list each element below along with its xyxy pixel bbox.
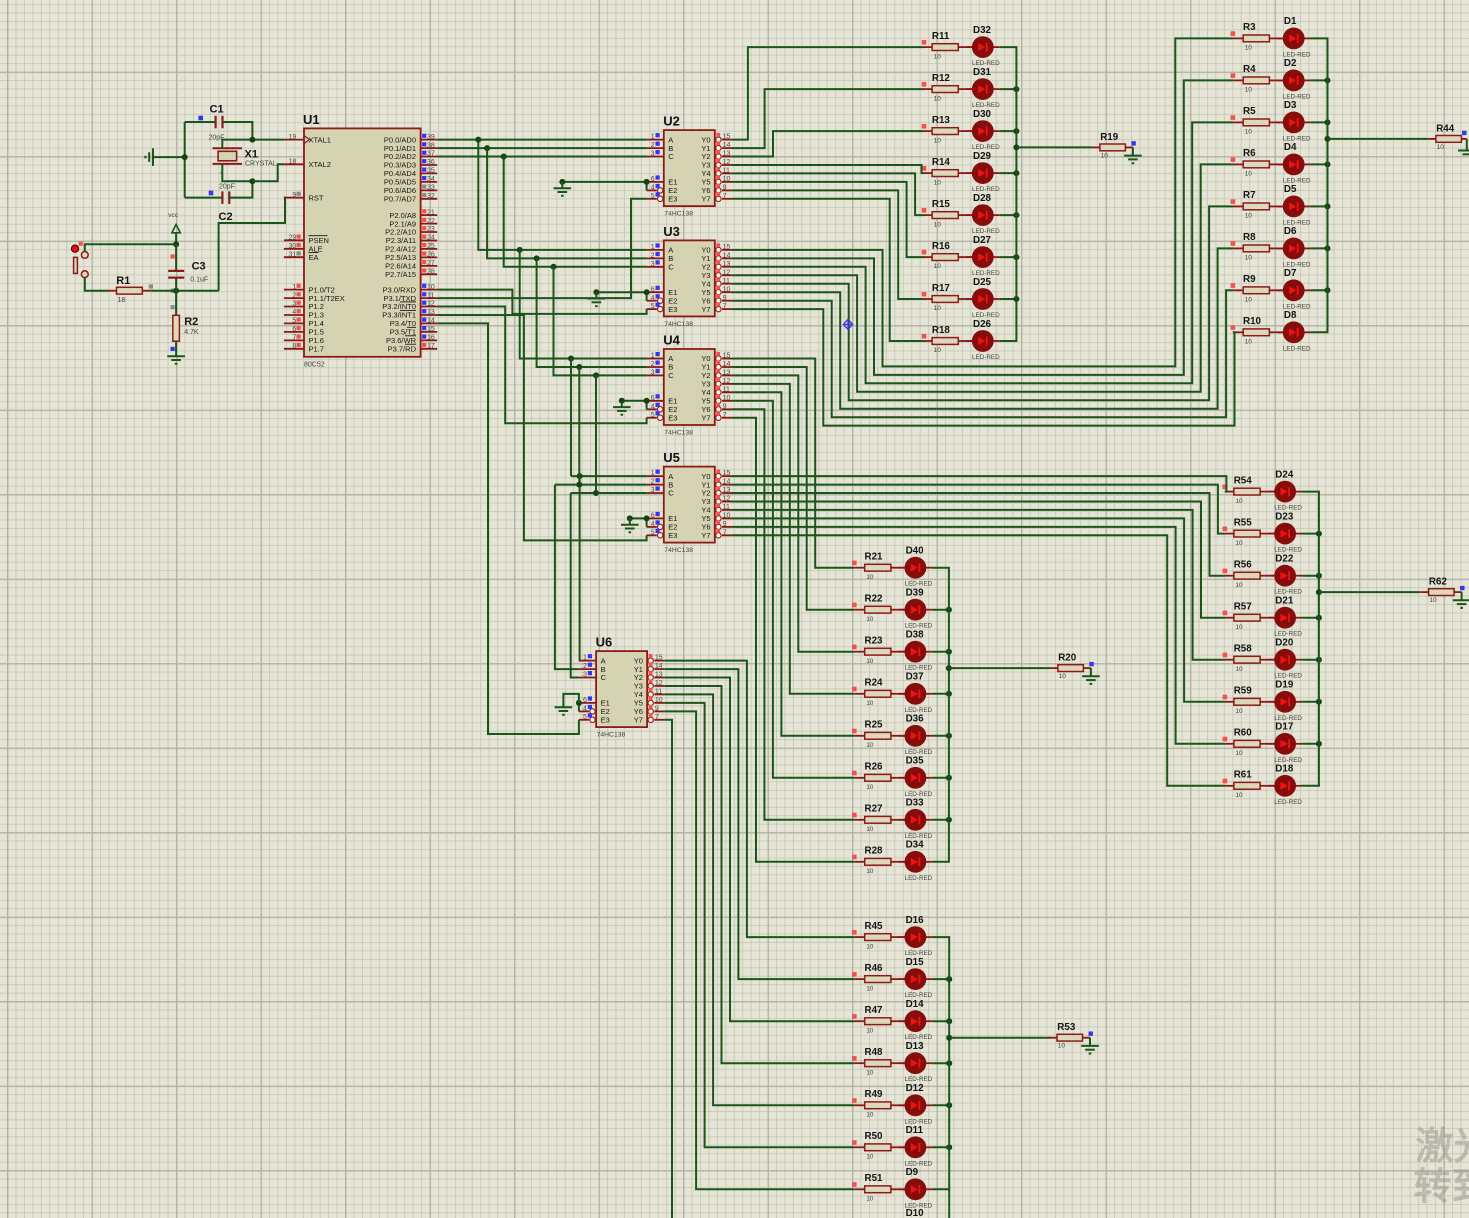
svg-text:10: 10 (866, 1027, 874, 1034)
LED D29 (966, 151, 1000, 193)
svg-text:14: 14 (427, 318, 435, 325)
junction bus D25 (1013, 296, 1019, 302)
LED D39 (899, 588, 933, 630)
resistor R56 to LED lead (1260, 575, 1275, 577)
resistor R51 10 (852, 1173, 891, 1202)
U1 pin P2.7/A15 28 (385, 268, 437, 279)
svg-text:10: 10 (934, 137, 942, 144)
wire P3.0 to U3.E3 (437, 290, 646, 314)
decoder U4 74HC138 (663, 333, 715, 437)
svg-text:R6: R6 (1243, 148, 1256, 159)
svg-text:4: 4 (651, 185, 655, 192)
LED D22 (1269, 554, 1303, 596)
svg-text:4: 4 (292, 309, 296, 316)
resistor R21 10 (852, 552, 891, 581)
svg-text:32: 32 (427, 193, 435, 200)
svg-text:D26: D26 (973, 319, 992, 330)
svg-text:15: 15 (723, 470, 731, 477)
svg-text:XTAL1: XTAL1 (309, 135, 331, 144)
U5 pin Y7 7 (701, 529, 732, 540)
U1 pin P3.6/WR 16 (386, 335, 437, 346)
ground (R44) (1466, 139, 1468, 151)
junction bus D13 (946, 1060, 952, 1066)
svg-text:D39: D39 (906, 588, 925, 599)
svg-text:14: 14 (723, 479, 731, 486)
svg-text:11: 11 (723, 168, 730, 175)
resistor R55 10 (1223, 517, 1261, 546)
svg-text:31: 31 (289, 251, 297, 258)
junction bus D35 (946, 775, 952, 781)
svg-text:3: 3 (292, 301, 296, 308)
resistor R22 10 (852, 594, 891, 623)
junction bus D28 (1013, 212, 1019, 218)
svg-text:D15: D15 (906, 957, 925, 968)
svg-text:10: 10 (1437, 144, 1445, 151)
wire button top to vcc node (85, 244, 176, 251)
svg-text:Y7: Y7 (701, 413, 710, 422)
wire U2.Y1 to R12 (732, 89, 924, 148)
wire U6.Y1 to R46 (664, 669, 854, 979)
svg-text:10: 10 (1245, 255, 1253, 262)
wire U4.Y2 to R23 (732, 375, 854, 651)
svg-text:X1: X1 (245, 149, 258, 161)
svg-text:13: 13 (723, 151, 731, 158)
wire U5.Y1 to R55 (732, 485, 1225, 534)
junction osc-gnd (182, 154, 188, 160)
wire U3.Y6 to R9 (732, 290, 1233, 417)
junction U3.B tap (534, 255, 540, 261)
wire D15 to bus (932, 978, 949, 980)
watermark text (1414, 1126, 1469, 1209)
svg-text:D34: D34 (906, 840, 925, 851)
ground (U4 enable) (621, 401, 623, 407)
wire D23 to bus (1302, 533, 1319, 535)
resistor R11 10 (922, 31, 959, 60)
U1 pin ALE 30 (284, 243, 323, 254)
U1 pin P2.5/A13 26 (385, 252, 437, 263)
resistor R10 to LED lead (1269, 331, 1283, 333)
junction bus D38 (946, 649, 952, 655)
wire U6.Y5 to R50 (664, 703, 854, 1147)
svg-text:R59: R59 (1234, 686, 1253, 697)
resistor R48 10 (852, 1047, 891, 1076)
U4 pin Y7 7 (701, 411, 732, 422)
U3 pin C 3 (647, 260, 675, 271)
svg-text:C: C (668, 152, 674, 161)
U6 pin Y5 10 (634, 696, 665, 707)
junction reset node (173, 288, 179, 294)
wire D38 to bus (932, 651, 949, 653)
resistor R50 to LED lead (891, 1146, 905, 1148)
junction U4 gnd stem (619, 398, 625, 404)
LED D19 (1269, 680, 1303, 722)
svg-text:D3: D3 (1284, 100, 1297, 111)
svg-text:24: 24 (427, 235, 435, 242)
svg-text:D10: D10 (906, 1208, 925, 1218)
junction bus tap (1316, 589, 1322, 595)
capacitor C2 20pF (209, 184, 235, 224)
svg-text:6: 6 (292, 326, 296, 333)
U3 pin Y6 9 (701, 294, 732, 305)
junction U5.A tap (577, 473, 583, 479)
wire D28 to bus (1000, 214, 1017, 216)
wire B bus U4-U5 (578, 367, 580, 485)
resistor R25 10 (852, 720, 891, 749)
svg-text:C2: C2 (219, 211, 233, 223)
LED D25 (966, 277, 1000, 319)
svg-text:26: 26 (427, 252, 435, 259)
U2 pin Y2 13 (701, 150, 732, 161)
wire U5.B input (555, 484, 647, 486)
svg-text:7: 7 (723, 193, 727, 200)
svg-text:R62: R62 (1429, 577, 1448, 588)
svg-text:10: 10 (1245, 129, 1253, 136)
U4 pin E1 6 (647, 394, 678, 405)
svg-text:29: 29 (289, 235, 297, 242)
svg-text:10: 10 (866, 1069, 874, 1076)
wire X1 top to XTAL1 (222, 140, 284, 149)
U3 pin Y5 10 (701, 286, 732, 297)
wire cathode bus (1302, 492, 1319, 786)
U2 pin Y7 7 (701, 192, 732, 203)
wire U3.Y3 to R6 (732, 164, 1233, 391)
LED D9 (899, 1167, 933, 1209)
svg-text:D28: D28 (973, 193, 992, 204)
svg-text:9: 9 (723, 185, 727, 192)
resistor R12 to LED lead (958, 88, 972, 90)
wire to XTAL2 (252, 164, 284, 181)
resistor R23 to LED lead (891, 651, 905, 653)
svg-text:2: 2 (651, 142, 655, 149)
svg-text:D40: D40 (906, 546, 925, 557)
wire U5.C input (571, 492, 647, 494)
junction U3.E1 (644, 289, 650, 295)
resistor R44 10 (terminator) (1428, 123, 1467, 151)
svg-text:11: 11 (723, 504, 730, 511)
U2 pin E2 4 (647, 184, 678, 195)
svg-text:D31: D31 (973, 67, 992, 78)
wire U5.Y4 to R58 (732, 510, 1225, 660)
svg-text:5: 5 (583, 714, 587, 721)
svg-text:10: 10 (723, 513, 731, 520)
svg-text:D37: D37 (906, 672, 925, 683)
wire P0.1 to U2.B (437, 147, 646, 149)
U5 pin Y3 12 (701, 495, 732, 506)
resistor R60 to LED lead (1260, 743, 1275, 745)
junction bus R53 tap (946, 1035, 952, 1041)
LED D33 (899, 798, 933, 840)
svg-text:6: 6 (651, 176, 655, 183)
U6 pin E3 5 (579, 713, 610, 724)
svg-text:U4: U4 (663, 333, 680, 348)
junction U2 gnd stem (559, 179, 565, 185)
svg-text:10: 10 (866, 700, 874, 707)
svg-text:D38: D38 (906, 630, 925, 641)
svg-text:R1: R1 (116, 275, 130, 287)
svg-text:10: 10 (934, 95, 942, 102)
resistor R4 10 (1231, 64, 1270, 93)
svg-text:R48: R48 (865, 1047, 884, 1058)
LED D31 (966, 67, 1000, 109)
wire cathode bus bottom extension (948, 1189, 950, 1218)
wire U2.Y2 to R13 (732, 131, 924, 156)
svg-text:D6: D6 (1284, 226, 1297, 237)
svg-text:3: 3 (651, 261, 655, 268)
resistor R51 to LED lead (891, 1188, 905, 1190)
wire U3.Y1 to R4 (732, 80, 1233, 375)
wire D35 to bus (932, 777, 949, 779)
svg-text:1: 1 (651, 134, 655, 141)
svg-text:36: 36 (427, 159, 435, 166)
svg-text:U3: U3 (663, 224, 680, 239)
resistor R15 to LED lead (958, 214, 972, 216)
U4 pin Y1 14 (701, 360, 732, 371)
svg-text:10: 10 (1245, 297, 1253, 304)
wire U5.A input (571, 475, 647, 477)
svg-text:LED-RED: LED-RED (905, 875, 933, 882)
junction bus D22 (1316, 573, 1322, 579)
LED D16 (899, 915, 933, 957)
svg-text:R8: R8 (1243, 232, 1256, 243)
U5 pin E2 4 (647, 520, 678, 531)
svg-text:2: 2 (651, 361, 655, 368)
svg-text:10: 10 (934, 347, 942, 354)
U1 pin P0.1/AD1 38 (384, 142, 437, 153)
U4 pin Y6 9 (701, 403, 732, 414)
resistor R26 to LED lead (891, 777, 905, 779)
resistor R54 10 (1223, 475, 1261, 504)
U3 pin E1 6 (647, 286, 678, 297)
svg-text:R46: R46 (865, 963, 884, 974)
resistor R14 to LED lead (958, 172, 972, 174)
wire U4.Y1 to R22 (732, 367, 854, 610)
junction bus D17 (1316, 741, 1322, 747)
decoder U2 74HC138 (663, 114, 715, 218)
U4 pin Y2 13 (701, 369, 732, 380)
svg-text:7: 7 (655, 714, 659, 721)
wire D30 to bus (1000, 130, 1017, 132)
junction bus D31 (1013, 86, 1019, 92)
U2 pin Y5 10 (701, 175, 732, 186)
svg-text:1: 1 (651, 353, 655, 360)
LED D17 (1269, 722, 1303, 764)
svg-text:10: 10 (1235, 582, 1243, 589)
svg-text:9: 9 (292, 192, 296, 199)
svg-text:R13: R13 (932, 115, 951, 126)
LED D37 (899, 672, 933, 714)
wire D39 to bus (932, 609, 949, 611)
svg-text:D19: D19 (1275, 680, 1294, 691)
svg-text:D32: D32 (973, 25, 992, 36)
svg-text:38: 38 (427, 142, 435, 149)
resistor R61 10 (1223, 770, 1261, 799)
svg-text:CRYSTAL: CRYSTAL (245, 161, 277, 168)
svg-text:10: 10 (1429, 597, 1437, 604)
resistor R47 to LED lead (891, 1020, 905, 1022)
U1 pin P0.4/AD4 35 (384, 168, 437, 179)
svg-text:10: 10 (1235, 666, 1243, 673)
svg-text:R16: R16 (932, 241, 951, 252)
microcontroller U1 80C52 (303, 112, 421, 369)
U2 pin E1 6 (647, 175, 678, 186)
wire U5.Y3 to R57 (732, 502, 1225, 618)
resistor R1 18 (108, 275, 153, 304)
junction U4.B tap (576, 364, 582, 370)
U1 pin P3.7/RD 17 (388, 343, 438, 354)
U1 pin RST 9 (284, 192, 324, 203)
wire U4.Y6 to R27 (732, 409, 854, 820)
resistor R27 10 (852, 804, 891, 833)
svg-text:10: 10 (1101, 152, 1109, 159)
wire D14 to bus (932, 1020, 949, 1022)
U6 pin A 1 (579, 654, 606, 665)
svg-text:D17: D17 (1275, 722, 1294, 733)
U5 pin E3 5 (647, 529, 678, 540)
svg-text:R28: R28 (865, 846, 884, 857)
svg-text:vcc: vcc (168, 212, 179, 219)
U2 pin B 2 (647, 142, 674, 153)
junction bus D33 (946, 817, 952, 823)
svg-text:22: 22 (427, 218, 435, 225)
svg-text:37: 37 (427, 151, 435, 158)
svg-text:D21: D21 (1275, 596, 1294, 607)
wire U4.Y7 to R28 (732, 418, 854, 862)
svg-text:10: 10 (934, 263, 942, 270)
svg-text:E3: E3 (668, 195, 677, 204)
U1 pin P3.5/T1 15 (390, 326, 437, 337)
svg-text:R54: R54 (1234, 475, 1253, 486)
resistor R53 10 (terminator) (1049, 1022, 1093, 1050)
svg-text:10: 10 (866, 943, 874, 950)
U1 pin P0.6/AD6 33 (384, 185, 437, 196)
svg-text:10: 10 (866, 742, 874, 749)
U2 pin A 1 (647, 133, 674, 144)
svg-text:R57: R57 (1234, 602, 1253, 613)
U1 pin P2.6/A14 27 (385, 260, 437, 271)
capacitor C1 20pF (198, 104, 224, 142)
wire U5.Y6 to R60 (732, 527, 1225, 744)
resistor R3 10 (1231, 22, 1270, 51)
svg-text:10: 10 (866, 1154, 874, 1161)
resistor R20 10 (terminator) (1050, 653, 1094, 681)
svg-text:D14: D14 (906, 999, 925, 1010)
U1 pin EA 31 (284, 251, 319, 262)
resistor R16 to LED lead (958, 256, 972, 258)
wire D4 to bus (1311, 163, 1328, 165)
svg-text:10: 10 (866, 1196, 874, 1203)
junction bus tap (1325, 136, 1331, 142)
svg-text:80C52: 80C52 (304, 362, 325, 369)
svg-text:R14: R14 (932, 157, 951, 168)
svg-text:D33: D33 (906, 798, 925, 809)
ground (oscillator) (145, 148, 153, 166)
wire A bus U5-U6 (578, 476, 581, 660)
svg-text:R11: R11 (932, 31, 950, 42)
svg-text:R21: R21 (865, 552, 884, 563)
junction U3.A tap (517, 247, 523, 253)
svg-text:11: 11 (723, 278, 730, 285)
svg-text:10: 10 (1235, 750, 1243, 757)
U2 pin Y6 9 (701, 184, 732, 195)
svg-text:9: 9 (655, 706, 659, 713)
svg-text:30: 30 (289, 243, 297, 250)
wire D6 to bus (1311, 247, 1328, 249)
LED D3 (1277, 100, 1311, 142)
U6 pin Y1 14 (634, 663, 665, 674)
svg-text:3: 3 (651, 370, 655, 377)
resistor R59 to LED lead (1260, 701, 1275, 703)
svg-text:R19: R19 (1100, 132, 1119, 143)
svg-text:D5: D5 (1284, 184, 1297, 195)
svg-text:D30: D30 (973, 109, 992, 120)
svg-text:D18: D18 (1275, 764, 1294, 775)
resistor R6 to LED lead (1269, 163, 1283, 165)
svg-text:Y7: Y7 (634, 716, 643, 725)
LED D28 (966, 193, 1000, 235)
wire U5.E1-E2 tie (630, 517, 647, 519)
svg-text:0.1uF: 0.1uF (190, 277, 208, 284)
svg-text:转到: 转到 (1414, 1167, 1469, 1209)
wire osc left vertical (184, 122, 186, 198)
svg-text:R2: R2 (184, 316, 198, 328)
wire U4.E1-E2 tie (622, 400, 647, 402)
svg-text:C: C (601, 673, 607, 682)
svg-text:D16: D16 (906, 915, 925, 926)
LED D18 (1269, 764, 1303, 806)
svg-text:9: 9 (723, 295, 727, 302)
svg-text:74HC138: 74HC138 (664, 430, 693, 437)
junction U2.E1 (644, 179, 650, 185)
svg-text:10: 10 (723, 176, 731, 183)
svg-text:15: 15 (723, 134, 731, 141)
svg-text:10: 10 (934, 305, 942, 312)
svg-text:R25: R25 (865, 720, 884, 731)
U4 pin Y4 11 (701, 386, 732, 397)
resistor R2 4.7K (171, 305, 199, 351)
resistor R11 to LED lead (958, 46, 972, 48)
resistor R22 to LED lead (891, 609, 905, 611)
wire B bus U3-U4 (537, 258, 647, 367)
svg-text:10: 10 (1058, 1043, 1066, 1050)
svg-text:E3: E3 (668, 413, 677, 422)
svg-text:12: 12 (655, 680, 663, 687)
wire U2.Y6 to R17 (732, 190, 924, 299)
U1 pin P2.2/A10 23 (385, 226, 437, 237)
junction U5.E1 (644, 515, 650, 521)
svg-text:2: 2 (583, 663, 587, 670)
resistor R56 10 (1223, 560, 1261, 589)
svg-text:R10: R10 (1243, 316, 1262, 327)
U1 pin P0.3/AD3 36 (384, 159, 437, 170)
svg-text:10: 10 (1245, 213, 1253, 220)
wire D37 to bus (932, 693, 949, 695)
wire U6.Y4 to R49 (664, 694, 854, 1105)
U1 pin P1.6 7 (284, 335, 324, 346)
wire U2.Y4 to R15 (732, 173, 924, 215)
svg-text:D11: D11 (906, 1125, 924, 1136)
wire D19 to bus (1302, 701, 1319, 703)
svg-text:13: 13 (723, 370, 731, 377)
svg-text:U6: U6 (596, 635, 613, 650)
resistor R7 to LED lead (1269, 205, 1283, 207)
junction U5.C tap (593, 490, 599, 496)
LED D38 (899, 630, 933, 672)
LED D24 (1269, 469, 1303, 511)
LED D27 (966, 235, 1000, 277)
junction bus D39 (946, 607, 952, 613)
svg-text:16: 16 (427, 335, 435, 342)
U1 pin P2.1/A9 22 (389, 218, 437, 229)
